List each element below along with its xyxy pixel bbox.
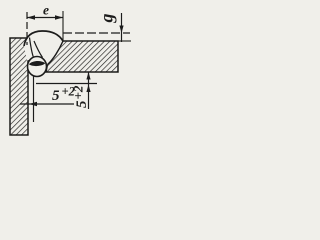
svg-text:5: 5 [74, 100, 90, 108]
weld top level line (dashed, for g) [63, 32, 130, 34]
plate top extension beyond plate end [118, 40, 131, 42]
fillet leg extension line horizontal (toe level) [36, 83, 97, 85]
dimension 5+2 vertical : dimension line [88, 72, 90, 109]
svg-text:5: 5 [52, 88, 60, 104]
root bead circle [28, 57, 47, 77]
vertical plate (hatched) [10, 38, 28, 135]
svg-text:g: g [97, 14, 117, 24]
dimension e : dimension line [27, 17, 63, 19]
horizontal plate (hatched) [46, 41, 118, 72]
svg-text:e: e [43, 3, 49, 18]
svg-text:+2: +2 [71, 85, 86, 99]
weld dome outline [24, 31, 63, 46]
dimension g : down arrow [119, 26, 123, 34]
weld fusion line (right bevel) [48, 41, 64, 65]
dimension e : right arrow [55, 15, 63, 19]
dimension g : vertical line [121, 13, 123, 42]
dimension 5+2 horizontal : dimension line [20, 103, 74, 105]
weld inner pass line 2 [34, 41, 43, 58]
weld inner pass line 1 [30, 38, 34, 58]
fillet leg extension line vertical (from root bead) [33, 76, 35, 122]
dimension 5+2 vertical : upper arrow [86, 72, 90, 80]
weld bead (outer dome) white body [24, 31, 63, 65]
dimension 5+2 vertical : lower arrow [86, 85, 90, 93]
dimension e : right extension line [62, 11, 64, 41]
root bead inner lens [29, 61, 46, 66]
paper background [0, 0, 134, 143]
dimension e : left arrow [27, 15, 35, 19]
dimension 5+2 vertical : rotated label [71, 85, 91, 108]
dimension e : left extension line (dashed) [26, 12, 28, 45]
dimension 5+2 horizontal : left arrow [29, 102, 37, 106]
